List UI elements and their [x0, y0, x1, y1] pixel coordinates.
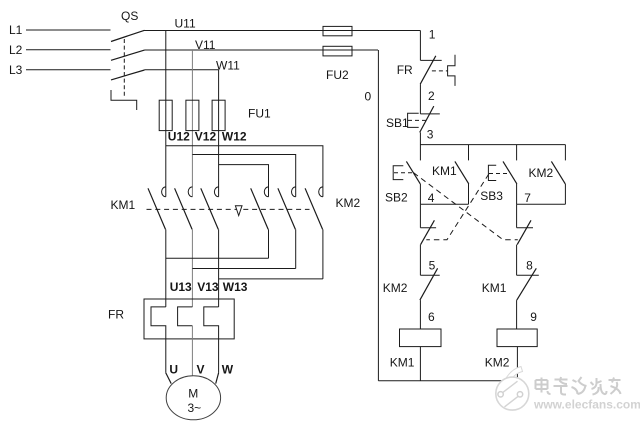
svg-text:FU2: FU2	[326, 68, 349, 82]
wire L1	[26, 29, 111, 31]
watermark text dianzifashaoyou	[536, 377, 621, 395]
wire node 6	[419, 300, 421, 329]
fuse FU1 V-phase	[186, 100, 199, 130]
svg-text:V13: V13	[197, 280, 219, 294]
watermark logo elecfans	[496, 367, 529, 411]
svg-text:KM1: KM1	[390, 355, 415, 369]
svg-text:L3: L3	[9, 63, 23, 77]
contactor KM1 interlock NC blade	[517, 268, 537, 300]
wire V12 branch to KM2 contact 5	[192, 155, 295, 197]
svg-text:0: 0	[365, 89, 372, 103]
svg-text:L2: L2	[9, 43, 23, 57]
svg-text:KM1: KM1	[432, 164, 457, 178]
contactor KM2 contact 6 blade	[305, 188, 323, 229]
fuse FU2 upper	[323, 26, 352, 35]
wire U12 branch to KM2 contact 6	[166, 146, 323, 197]
wire SB3 bottom	[516, 184, 518, 204]
contactor KM1 interlock NC seat	[517, 274, 539, 276]
coil KM1	[400, 329, 442, 347]
svg-text:3: 3	[427, 128, 434, 142]
wire node 0 vertical	[377, 50, 379, 381]
button SB2 NC seat	[517, 227, 533, 229]
contactor KM2 contact 5 blade	[278, 188, 296, 229]
wire node4 to SB3 NC	[419, 204, 421, 227]
contactor KM1 contact W blade	[201, 188, 219, 229]
wire KM2 aux bottom	[564, 184, 566, 204]
wire node 1 corner	[419, 31, 421, 61]
wire KM1 aux bottom	[468, 184, 470, 204]
wire node 3	[419, 132, 421, 160]
wire W motor slant	[216, 373, 219, 384]
wire node 4	[420, 203, 468, 205]
branch drop KM2 aux	[564, 145, 566, 161]
svg-text:3~: 3~	[188, 401, 202, 415]
wire node 8	[516, 245, 518, 276]
contact KM2 aux blade	[551, 161, 565, 184]
contactor KM1 contact W arc	[214, 187, 218, 197]
wire L3	[26, 69, 111, 71]
wire coil KM1 to bus	[419, 347, 421, 381]
svg-text:KM1: KM1	[482, 281, 507, 295]
wire row L1 to node1	[145, 30, 421, 32]
contact KM1 aux blade	[455, 161, 469, 184]
contactor KM2 contact 4 blade	[251, 188, 269, 229]
branch drop SB3	[516, 145, 518, 161]
wire node7 to SB2 NC	[516, 204, 518, 227]
button SB3 NC blade	[421, 220, 435, 244]
fuse FU1 W-phase	[212, 100, 225, 130]
svg-text:KM2: KM2	[485, 355, 510, 369]
button SB1 seat	[420, 113, 439, 115]
wire V13 vertical grey	[191, 229, 193, 307]
wire coil KM2 to bus	[516, 347, 518, 381]
button SB2 NC blade	[517, 220, 531, 244]
svg-text:W13: W13	[223, 280, 248, 294]
svg-text:U: U	[169, 362, 178, 376]
contactor KM2 contact 5 arc	[292, 187, 296, 197]
svg-text:FR: FR	[108, 307, 124, 321]
wire U motor slant	[166, 373, 171, 384]
svg-text:V12: V12	[195, 130, 217, 144]
FR heater W	[204, 307, 219, 373]
contactor KM2 contact 6 arc	[319, 187, 323, 197]
svg-text:www.elecfans.com: www.elecfans.com	[533, 398, 640, 412]
coil KM2	[497, 329, 537, 347]
relay FR NC seat	[420, 59, 441, 61]
switch QS handle bracket	[111, 90, 137, 110]
contactor KM1 contact U blade	[148, 188, 166, 229]
wire KM2 contact 6 bottom	[322, 229, 324, 279]
svg-text:8: 8	[526, 258, 533, 272]
button SB3 link dashed	[489, 173, 508, 175]
svg-text:5: 5	[429, 258, 436, 272]
svg-text:9: 9	[530, 310, 537, 324]
switch QS blade L1	[111, 30, 145, 41]
FR heater V	[178, 307, 193, 326]
svg-text:KM2: KM2	[383, 281, 408, 295]
contactor KM1 contact V arc	[188, 187, 192, 197]
switch QS linkage dashed	[123, 39, 125, 97]
contactor KM1 contact U arc	[162, 187, 166, 197]
svg-text:W12: W12	[222, 130, 247, 144]
wire bottom bus	[378, 380, 517, 382]
FR linkage dashed	[432, 70, 448, 72]
svg-text:V: V	[197, 362, 205, 376]
svg-text:W11: W11	[216, 58, 240, 72]
svg-text:SB2: SB2	[385, 190, 408, 204]
relay FR NC blade	[420, 56, 436, 84]
svg-text:FU1: FU1	[248, 106, 271, 120]
control bus node 3	[420, 144, 565, 146]
svg-text:2: 2	[428, 89, 435, 103]
wire node 5	[419, 245, 421, 276]
svg-text:U11: U11	[175, 17, 196, 31]
wire SB2 bottom	[419, 184, 421, 204]
svg-text:U13: U13	[170, 280, 192, 294]
wire row L3	[145, 69, 219, 71]
button SB1 actuator E	[408, 113, 419, 127]
svg-text:V11: V11	[195, 38, 216, 52]
button SB1 link dashed	[408, 119, 426, 121]
wire return W13 horizontal	[219, 278, 323, 280]
linkage SB2 dashed diagonal	[414, 173, 518, 240]
svg-text:SB1: SB1	[386, 116, 409, 130]
button SB2 actuator E	[393, 166, 403, 180]
wire L2	[26, 49, 111, 51]
button SB3 NC seat	[420, 227, 436, 229]
svg-text:KM2: KM2	[336, 196, 361, 210]
switch QS blade L2	[111, 50, 145, 60]
linkage dashed rail KM1-KM2	[147, 208, 310, 210]
svg-text:1: 1	[429, 28, 436, 42]
svg-text:QS: QS	[121, 9, 138, 23]
wire W13 vertical	[218, 229, 220, 307]
linkage SB3 dashed diagonal	[426, 174, 489, 240]
wire return V13 horizontal	[192, 268, 295, 270]
button SB3 actuator E	[488, 165, 496, 180]
FR thermal actuator	[448, 55, 455, 86]
button SB1 blade	[420, 106, 434, 132]
wire U11 vertical	[165, 31, 167, 197]
wire U13 vertical	[165, 229, 167, 307]
contactor KM2 interlock NC seat	[420, 274, 439, 276]
fuse FU2 lower	[323, 46, 352, 56]
button SB2 link dashed	[394, 172, 413, 174]
wire node 7	[517, 203, 566, 205]
wire W11 vertical	[218, 70, 220, 197]
button SB3 blade	[503, 161, 517, 184]
linkage triangle marker	[235, 206, 242, 216]
wire V to motor grey	[191, 326, 193, 376]
wire W12 branch to KM2 contact 4	[219, 165, 269, 197]
contactor KM2 contact 4 arc	[264, 187, 268, 197]
wire KM2 contact 5 bottom	[295, 229, 297, 268]
svg-text:KM2: KM2	[529, 166, 554, 180]
svg-text:6: 6	[428, 310, 435, 324]
svg-text:KM1: KM1	[111, 198, 136, 212]
svg-text:U12: U12	[168, 130, 190, 144]
motor M circle	[166, 376, 220, 420]
contactor KM2 interlock NC blade	[420, 268, 438, 300]
wire KM2 contact 4 bottom	[268, 229, 270, 258]
contactor KM1 contact V blade	[175, 188, 193, 229]
svg-text:SB3: SB3	[480, 189, 503, 203]
svg-text:W: W	[222, 362, 234, 376]
svg-text:FR: FR	[397, 63, 413, 77]
wire row L2 to node0	[145, 49, 379, 51]
switch QS blade L3	[111, 70, 145, 80]
fuse FU1 U-phase	[159, 100, 172, 130]
svg-text:7: 7	[524, 191, 531, 205]
branch drop KM1 aux	[468, 145, 470, 161]
svg-text:M: M	[188, 387, 198, 401]
svg-text:L1: L1	[9, 23, 23, 37]
wire return U13 horizontal	[166, 257, 269, 259]
wire node 9	[516, 300, 518, 329]
wire V11 vertical grey	[191, 50, 193, 197]
button SB2 blade	[406, 161, 420, 184]
svg-text:4: 4	[428, 191, 435, 205]
wire node 2	[419, 84, 421, 114]
thermal relay FR box	[144, 299, 234, 339]
FR heater U	[151, 307, 166, 373]
